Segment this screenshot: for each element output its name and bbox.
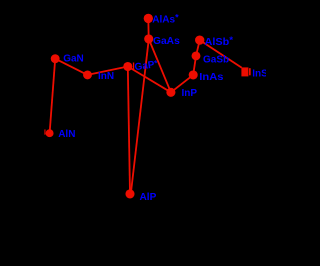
wire GaSb-AlSb [196,40,200,56]
node AlP [125,189,134,198]
wire GaP-AlP [128,67,130,194]
svg-text:InP: InP [182,88,198,99]
wire GaAs-InP [149,39,171,92]
wire GaAs-AlP [131,39,149,194]
node GaAs [144,34,153,43]
svg-text:InAs: InAs [199,72,224,83]
svg-text:AlN: AlN [58,129,75,140]
svg-text:AlAs*: AlAs* [152,12,179,25]
node GaN [51,54,60,63]
tick right of InSb [249,68,251,75]
node InSb (square marker) [241,67,248,76]
tick right of GaP [133,63,134,70]
wire InN-GaP [88,67,128,75]
svg-text:AlP: AlP [140,192,157,203]
node AlAs [144,14,153,23]
svg-text:GaN: GaN [63,54,84,65]
wire InP-InAs [171,75,193,92]
svg-text:InSb: InSb [252,69,266,80]
node InAs [189,70,198,79]
wire AlN-GaN [50,59,56,134]
tick left of AlN [44,129,45,134]
svg-text:GaAs: GaAs [153,36,180,47]
svg-text:GaSb: GaSb [203,54,229,65]
wire AlSb-InSb [200,40,242,68]
node InP [166,88,175,97]
wire InAs-GaSb [193,56,196,75]
node GaSb [192,51,201,60]
svg-text:InN: InN [98,71,114,82]
node InN [83,70,92,79]
node AlSb [195,35,204,44]
wire AlAs-GaAs [147,18,149,39]
svg-text:AlSb*: AlSb* [205,35,234,48]
wire GaN-InN [55,59,87,75]
node GaP [123,62,132,71]
wire GaP-InP [128,67,171,93]
node AlN [46,129,54,137]
